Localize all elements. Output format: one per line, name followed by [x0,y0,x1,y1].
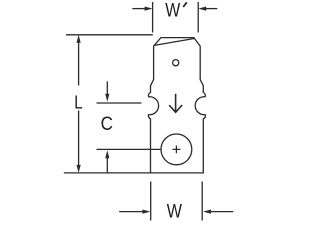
L dimension line lower [77,111,81,173]
C top extension line [97,102,142,104]
W' right extension line [197,2,199,33]
W left arrow [119,210,150,214]
L bottom extension line [64,172,151,174]
W' prime tick [183,2,187,7]
svg-text:C: C [101,113,113,135]
dimple crosshair [173,146,181,154]
svg-text:W: W [167,200,183,222]
insertion arrow [169,94,182,113]
W' left extension line [152,2,154,33]
C bottom extension line [97,148,162,150]
tab hole [173,60,179,66]
terminal body outline [148,38,205,173]
svg-text:W: W [165,1,180,22]
C top arrow [105,81,109,101]
W right arrow [203,210,233,214]
C bottom arrow [105,150,109,172]
svg-text:L: L [74,93,82,113]
W' right arrow [198,7,217,11]
W right extension line [201,182,203,221]
L dimension line upper [77,35,81,86]
L top extension line [66,34,153,36]
wire dimple circle [161,134,192,165]
W' left arrow [132,7,152,11]
W left extension line [150,182,152,221]
tab tip chamfer line [154,39,194,46]
